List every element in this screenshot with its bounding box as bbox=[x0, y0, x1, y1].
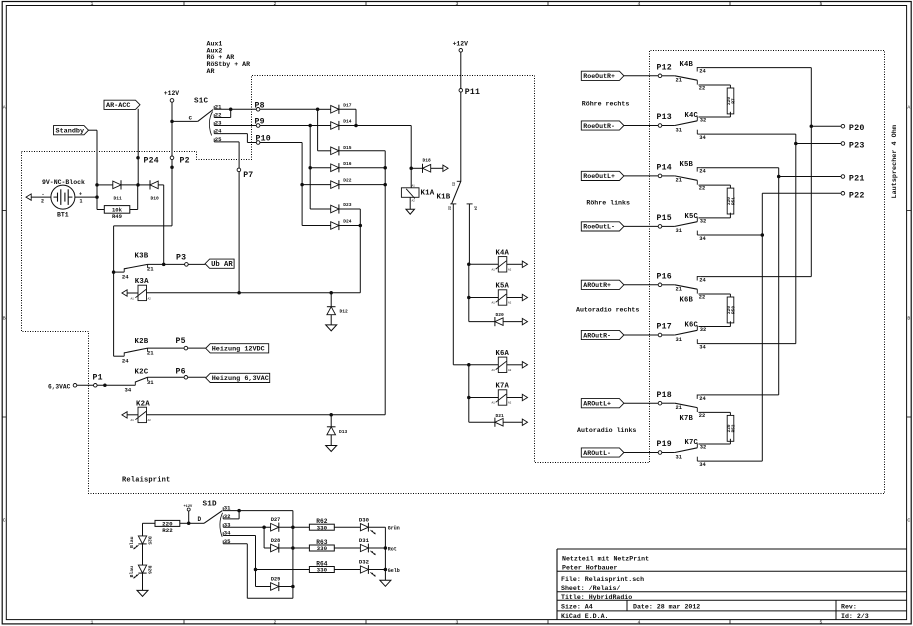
svg-text:21: 21 bbox=[676, 178, 682, 184]
svg-text:Rev:: Rev: bbox=[841, 604, 857, 611]
svg-text:22: 22 bbox=[699, 294, 705, 300]
wire bbox=[256, 586, 271, 588]
LED D32 bbox=[360, 566, 368, 573]
svg-text:D13: D13 bbox=[339, 429, 348, 435]
wire bbox=[729, 185, 731, 188]
switch S1D bbox=[189, 501, 223, 537]
svg-text:34: 34 bbox=[699, 462, 706, 468]
diode D27 bbox=[271, 523, 279, 531]
diode D12 (to ground) bbox=[330, 293, 332, 307]
svg-text:K2B: K2B bbox=[135, 338, 149, 346]
svg-text:32: 32 bbox=[700, 218, 706, 224]
relay contact K6C bbox=[662, 322, 707, 351]
svg-text:32: 32 bbox=[700, 445, 706, 451]
wire bbox=[143, 522, 156, 524]
svg-text:D12: D12 bbox=[340, 308, 349, 314]
node P16 bbox=[658, 283, 662, 287]
diode D20 bbox=[495, 318, 503, 326]
relay contact K3B bbox=[114, 253, 155, 281]
svg-text:C: C bbox=[907, 518, 910, 524]
relay coil K1A bbox=[401, 188, 419, 198]
wire bbox=[317, 109, 319, 151]
svg-text:K6C: K6C bbox=[685, 322, 699, 330]
svg-text:c: c bbox=[189, 115, 193, 122]
wire bbox=[292, 511, 294, 528]
wire bbox=[699, 116, 731, 118]
svg-text:P19: P19 bbox=[657, 440, 672, 449]
svg-text:24: 24 bbox=[699, 69, 706, 75]
svg-text:P10: P10 bbox=[256, 135, 271, 144]
diode D23 bbox=[331, 205, 339, 213]
wire bbox=[701, 394, 779, 396]
svg-text:P20: P20 bbox=[849, 123, 865, 133]
svg-text:P6: P6 bbox=[176, 367, 186, 376]
wire bbox=[238, 172, 240, 293]
port arrow BT1 pin 2 bbox=[26, 194, 31, 200]
wire bbox=[411, 167, 422, 169]
wire bbox=[409, 197, 411, 209]
wire bbox=[238, 511, 240, 519]
svg-text:Gelb: Gelb bbox=[388, 568, 400, 574]
svg-text:24: 24 bbox=[122, 358, 129, 365]
svg-text:22: 22 bbox=[699, 85, 705, 91]
relay contact K7C bbox=[662, 439, 707, 468]
junction bbox=[384, 568, 388, 572]
node P2 bbox=[170, 156, 174, 160]
svg-text:P14: P14 bbox=[657, 164, 672, 173]
junction bbox=[467, 296, 471, 300]
node P3 bbox=[185, 263, 189, 267]
wire bbox=[301, 143, 303, 226]
svg-text:K2A: K2A bbox=[136, 401, 150, 409]
svg-text:K1B: K1B bbox=[437, 194, 451, 202]
node P11 bbox=[459, 89, 463, 93]
junction bbox=[162, 263, 166, 267]
wire bbox=[624, 284, 658, 286]
node P15 bbox=[658, 225, 662, 229]
node P23 bbox=[841, 142, 845, 146]
svg-text:D11: D11 bbox=[114, 196, 123, 202]
wire bbox=[214, 108, 317, 110]
wire bbox=[729, 294, 731, 297]
LED D30 bbox=[360, 524, 368, 531]
wire bbox=[255, 536, 257, 587]
wire bbox=[624, 125, 658, 127]
wire bbox=[468, 204, 470, 264]
svg-text:S1C: S1C bbox=[194, 97, 209, 105]
wire bbox=[468, 264, 470, 321]
port arrow K6A bbox=[522, 362, 527, 368]
S1D contact 31 bbox=[222, 507, 224, 510]
wire bbox=[97, 184, 113, 186]
diode D15 bbox=[331, 147, 339, 155]
svg-text:K3B: K3B bbox=[135, 253, 149, 261]
svg-text:24: 24 bbox=[122, 274, 129, 281]
global label RoeOutR+ bbox=[581, 71, 624, 80]
svg-text:K4A: K4A bbox=[496, 249, 510, 257]
node P24 bbox=[136, 156, 140, 160]
svg-text:Heizung 12VDC: Heizung 12VDC bbox=[212, 346, 265, 354]
svg-text:24: 24 bbox=[699, 396, 706, 402]
svg-text:31: 31 bbox=[676, 337, 682, 343]
resistor R64 bbox=[309, 567, 334, 573]
junction bbox=[136, 183, 140, 187]
svg-text:P3: P3 bbox=[176, 254, 186, 263]
relay contact K2C bbox=[125, 368, 155, 393]
wire bbox=[142, 573, 144, 590]
svg-text:A2: A2 bbox=[148, 297, 152, 300]
resistor R7 bbox=[727, 88, 734, 114]
svg-text:+12V: +12V bbox=[453, 40, 469, 47]
node P8 bbox=[256, 108, 260, 112]
resistor R50 bbox=[727, 297, 734, 323]
wire bbox=[214, 117, 231, 119]
wire bbox=[318, 150, 331, 152]
junction bbox=[354, 124, 358, 128]
svg-text:24: 24 bbox=[699, 169, 706, 175]
wire bbox=[699, 411, 731, 413]
wire bbox=[503, 421, 522, 423]
svg-text:P16: P16 bbox=[657, 273, 672, 282]
wire bbox=[699, 293, 731, 295]
svg-text:D26: D26 bbox=[146, 566, 152, 575]
svg-text:D10: D10 bbox=[151, 196, 160, 202]
svg-text:R64: R64 bbox=[316, 560, 327, 567]
LED D26 bbox=[138, 565, 146, 573]
junction bbox=[291, 546, 295, 550]
svg-text:A1: A1 bbox=[131, 297, 135, 300]
wire bbox=[334, 569, 360, 571]
wire bbox=[699, 217, 731, 219]
svg-text:A: A bbox=[907, 105, 910, 111]
diode D16 bbox=[331, 164, 339, 172]
svg-text:D15: D15 bbox=[343, 145, 352, 151]
port arrow D18 bbox=[443, 165, 448, 171]
global label AROutR+ bbox=[581, 280, 624, 289]
wire bbox=[460, 52, 462, 181]
global label RoeOutL- bbox=[581, 222, 624, 231]
diode D22 bbox=[331, 181, 339, 189]
svg-text:Standby: Standby bbox=[56, 128, 85, 136]
wire bbox=[263, 527, 265, 548]
wire bbox=[796, 143, 841, 145]
svg-text:R52: R52 bbox=[732, 424, 737, 432]
svg-text:K7B: K7B bbox=[680, 415, 694, 423]
relay contact K6B bbox=[662, 276, 707, 305]
svg-text:D27: D27 bbox=[271, 517, 280, 523]
svg-text:21: 21 bbox=[676, 287, 682, 293]
resistor R63 bbox=[309, 545, 334, 551]
svg-text:RoeOutL-: RoeOutL- bbox=[583, 224, 615, 231]
wire bbox=[330, 315, 332, 325]
svg-text:D18: D18 bbox=[423, 158, 432, 164]
wire bbox=[223, 518, 239, 520]
svg-text:BT1: BT1 bbox=[57, 211, 69, 218]
svg-text:P24: P24 bbox=[144, 156, 159, 165]
svg-text:+12V: +12V bbox=[184, 505, 193, 509]
wire bbox=[355, 109, 357, 125]
svg-text:Title: HybridRadio: Title: HybridRadio bbox=[561, 594, 632, 601]
ground bbox=[326, 446, 337, 452]
svg-text:D28: D28 bbox=[271, 538, 280, 544]
wire bbox=[310, 208, 331, 210]
diode D10 bbox=[150, 181, 158, 189]
wire bbox=[453, 364, 469, 366]
wire bbox=[113, 226, 115, 356]
relay contact K4B bbox=[662, 61, 707, 92]
junction bbox=[467, 263, 471, 267]
node P10 bbox=[256, 141, 260, 145]
svg-text:Autoradio rechts: Autoradio rechts bbox=[576, 307, 639, 314]
relay coil K7A bbox=[498, 390, 507, 405]
svg-text:P2: P2 bbox=[180, 156, 190, 165]
svg-text:Grün: Grün bbox=[388, 526, 400, 532]
resistor R52 bbox=[727, 415, 734, 441]
wire bbox=[356, 125, 411, 127]
wire bbox=[469, 397, 499, 399]
resistor R51 bbox=[727, 188, 734, 214]
svg-text:2: 2 bbox=[274, 620, 277, 626]
wire bbox=[701, 67, 811, 69]
wire bbox=[469, 421, 495, 423]
svg-text:K1A: K1A bbox=[421, 189, 435, 197]
wire bbox=[214, 125, 310, 127]
wire bbox=[779, 176, 841, 178]
wire bbox=[214, 141, 239, 143]
relay coil K5A bbox=[498, 290, 507, 305]
svg-text:RoeOutR+: RoeOutR+ bbox=[583, 73, 615, 80]
wire bbox=[223, 526, 270, 528]
svg-text:P5: P5 bbox=[176, 337, 186, 346]
hierarchical label Heizung 6,3VAC bbox=[206, 373, 270, 382]
wire bbox=[302, 184, 331, 186]
svg-text:A2: A2 bbox=[508, 402, 512, 405]
wire bbox=[507, 297, 523, 299]
node P12 bbox=[658, 74, 662, 78]
svg-text:24: 24 bbox=[473, 206, 477, 210]
svg-text:22: 22 bbox=[699, 413, 705, 419]
svg-text:21: 21 bbox=[147, 266, 154, 273]
svg-text:C: C bbox=[3, 518, 6, 524]
svg-text:Lautsprecher 4 Ohm: Lautsprecher 4 Ohm bbox=[891, 125, 899, 198]
S1C contact 25 bbox=[213, 139, 215, 142]
svg-text:K4B: K4B bbox=[680, 61, 694, 69]
svg-text:330: 330 bbox=[317, 545, 328, 552]
svg-text:Blau: Blau bbox=[129, 566, 135, 578]
svg-text:Date: 28 mar 2012: Date: 28 mar 2012 bbox=[633, 604, 700, 611]
wire bbox=[247, 142, 302, 144]
wire bbox=[699, 443, 731, 445]
power +12V bbox=[170, 99, 174, 103]
diode D14 bbox=[331, 122, 339, 130]
wire bbox=[137, 185, 139, 210]
global label AROutL+ bbox=[581, 399, 624, 408]
junction bbox=[103, 384, 107, 388]
junction S1C feed bbox=[170, 120, 174, 124]
svg-text:AR: AR bbox=[207, 68, 215, 75]
wire bbox=[89, 129, 98, 131]
resistor R49 bbox=[104, 206, 130, 214]
global label RoeOutL+ bbox=[581, 171, 624, 180]
global label AR-ACC bbox=[104, 100, 140, 109]
power +12V (S1D) bbox=[187, 508, 190, 511]
relay contact K5B bbox=[662, 161, 707, 192]
svg-text:A1: A1 bbox=[412, 185, 416, 188]
svg-text:D25: D25 bbox=[146, 536, 152, 545]
diode D18 bbox=[423, 165, 431, 173]
net list text bbox=[207, 41, 251, 76]
svg-text:31: 31 bbox=[676, 454, 682, 460]
wire bbox=[701, 343, 796, 345]
svg-text:A1: A1 bbox=[492, 402, 496, 405]
port arrow D20 bbox=[522, 318, 527, 324]
svg-text:2: 2 bbox=[274, 1, 277, 7]
junction bbox=[237, 509, 241, 512]
wire bbox=[138, 184, 150, 186]
diode D11 bbox=[113, 181, 121, 189]
wire bbox=[264, 547, 271, 549]
wire bbox=[469, 297, 499, 299]
svg-text:2: 2 bbox=[41, 198, 44, 204]
junction bbox=[794, 142, 798, 146]
junction bbox=[229, 108, 233, 112]
wire bbox=[359, 209, 361, 293]
wire bbox=[223, 543, 247, 545]
wire bbox=[75, 196, 97, 198]
junction bbox=[237, 291, 241, 295]
wire bbox=[247, 597, 293, 599]
svg-text:3: 3 bbox=[456, 620, 459, 626]
wire bbox=[810, 68, 812, 277]
wire bbox=[624, 334, 658, 336]
wire bbox=[142, 523, 144, 536]
junction bbox=[112, 270, 116, 274]
wire bbox=[431, 167, 443, 169]
svg-text:31: 31 bbox=[676, 127, 682, 133]
svg-text:B: B bbox=[907, 316, 910, 322]
svg-text:R62: R62 bbox=[316, 518, 327, 525]
wire bbox=[163, 185, 165, 265]
S1D contact 33 bbox=[222, 524, 224, 527]
svg-text:AROutR+: AROutR+ bbox=[583, 282, 611, 289]
svg-text:9V-NC-Block: 9V-NC-Block bbox=[42, 179, 85, 186]
diode D29 bbox=[271, 583, 279, 591]
wire bbox=[729, 321, 731, 326]
junction bbox=[383, 183, 387, 187]
wire bbox=[334, 526, 360, 528]
svg-text:+12V: +12V bbox=[164, 90, 180, 97]
svg-text:P8: P8 bbox=[255, 101, 265, 110]
junction bbox=[254, 568, 258, 572]
wire bbox=[339, 125, 356, 127]
svg-text:Autoradio links: Autoradio links bbox=[577, 427, 636, 434]
svg-text:21: 21 bbox=[451, 182, 455, 186]
svg-text:Röhre rechts: Röhre rechts bbox=[582, 100, 630, 107]
svg-text:D17: D17 bbox=[343, 102, 352, 108]
node P22 bbox=[841, 192, 845, 196]
wire bbox=[97, 209, 104, 211]
svg-text:1: 1 bbox=[91, 620, 94, 626]
S1D contact 32 bbox=[222, 516, 224, 519]
port arrow D21 bbox=[522, 419, 527, 425]
junction bbox=[95, 195, 99, 199]
svg-text:K6A: K6A bbox=[496, 350, 510, 358]
wire bbox=[130, 209, 138, 211]
svg-text:32: 32 bbox=[700, 327, 706, 333]
node P21 bbox=[841, 175, 845, 179]
wire bbox=[147, 414, 386, 416]
svg-text:32: 32 bbox=[700, 118, 706, 124]
wire bbox=[761, 193, 763, 461]
switch S1C bbox=[172, 97, 213, 135]
node P20 bbox=[841, 124, 845, 128]
svg-text:Rot: Rot bbox=[388, 547, 397, 553]
ground bbox=[137, 590, 148, 596]
svg-text:22: 22 bbox=[446, 206, 450, 210]
svg-text:B: B bbox=[3, 316, 6, 322]
power +12V (top) bbox=[459, 49, 463, 53]
svg-text:-: - bbox=[42, 192, 45, 198]
wire bbox=[147, 292, 361, 294]
wire bbox=[223, 510, 293, 512]
port arrow K2A bbox=[122, 412, 127, 418]
wire bbox=[384, 527, 386, 580]
S1C contact 21 bbox=[213, 106, 215, 109]
svg-text:R63: R63 bbox=[316, 539, 327, 546]
relay contact K4C bbox=[662, 112, 707, 141]
wire bbox=[339, 108, 356, 110]
svg-text:P18: P18 bbox=[657, 391, 672, 400]
svg-text:330: 330 bbox=[317, 524, 328, 531]
svg-text:Röhre links: Röhre links bbox=[586, 200, 630, 207]
wire bbox=[158, 184, 164, 186]
svg-text:A2: A2 bbox=[508, 369, 512, 372]
svg-text:1: 1 bbox=[80, 198, 83, 204]
S1C contact 24 bbox=[213, 130, 215, 133]
relay coil K6A bbox=[498, 357, 507, 372]
wire bbox=[246, 134, 248, 143]
wire bbox=[309, 126, 311, 210]
relay coil K4A bbox=[498, 257, 507, 272]
svg-text:P1: P1 bbox=[93, 374, 103, 383]
wire bbox=[762, 192, 841, 194]
wire bbox=[96, 130, 98, 209]
svg-text:File: Relaisprint.sch: File: Relaisprint.sch bbox=[561, 576, 644, 583]
junction bbox=[329, 291, 333, 295]
wire bbox=[369, 547, 386, 549]
svg-text:D14: D14 bbox=[343, 119, 352, 125]
wire bbox=[292, 527, 294, 586]
junction bbox=[384, 546, 388, 550]
wire bbox=[469, 263, 499, 265]
S1D contact 35 bbox=[222, 540, 224, 543]
wire bbox=[148, 347, 206, 349]
wire bbox=[410, 126, 412, 169]
wire bbox=[410, 168, 412, 188]
svg-text:P13: P13 bbox=[657, 113, 672, 122]
wire bbox=[214, 133, 247, 135]
wire bbox=[469, 364, 499, 366]
wire bbox=[77, 384, 136, 386]
svg-text:4: 4 bbox=[638, 1, 641, 7]
wire bbox=[188, 511, 190, 523]
wire bbox=[369, 569, 386, 571]
svg-text:P11: P11 bbox=[465, 88, 480, 97]
relay contact K2B bbox=[114, 338, 155, 365]
svg-text:3: 3 bbox=[456, 1, 459, 7]
svg-text:D21: D21 bbox=[496, 413, 505, 419]
svg-text:P21: P21 bbox=[849, 174, 865, 184]
